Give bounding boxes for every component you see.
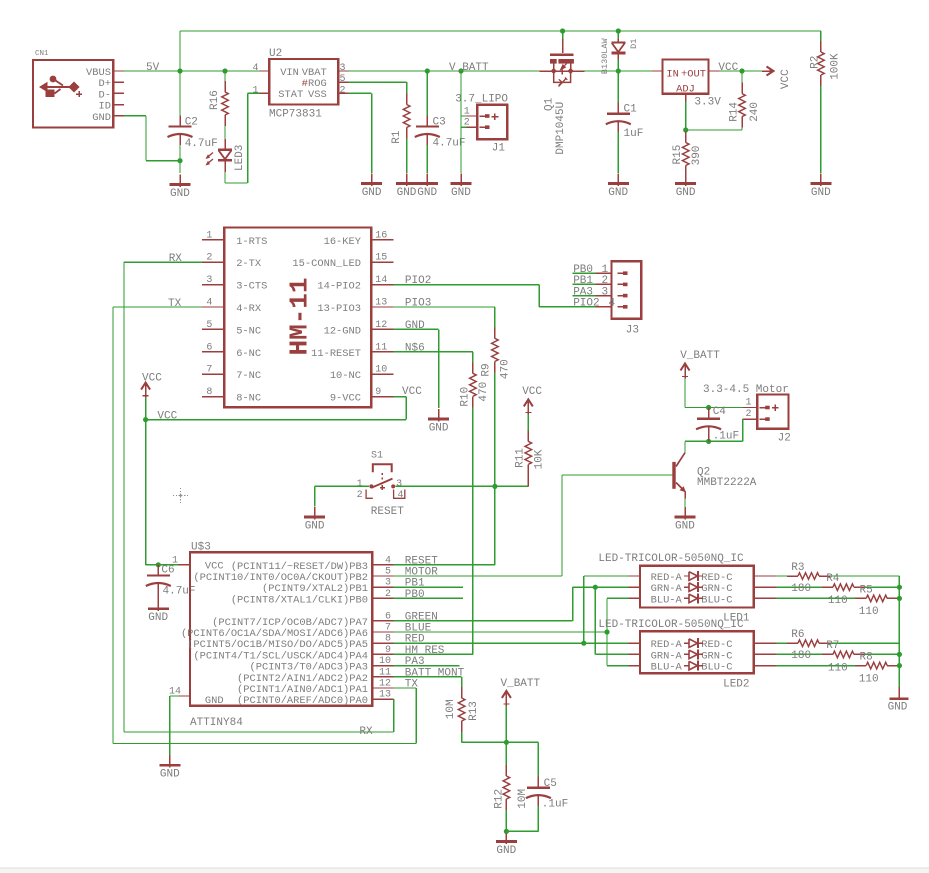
svg-text:6-NC: 6-NC: [236, 348, 261, 360]
svg-text:R10: R10: [459, 387, 471, 407]
svg-text:3: 3: [602, 286, 609, 298]
svg-text:GND: GND: [496, 845, 516, 857]
svg-text:ATTINY84: ATTINY84: [190, 717, 243, 729]
svg-text:LED-TRICOLOR-5050NQ_IC: LED-TRICOLOR-5050NQ_IC: [598, 553, 744, 565]
svg-text:R1: R1: [391, 130, 403, 144]
svg-text:390: 390: [691, 146, 703, 166]
svg-text:IN: IN: [666, 69, 678, 81]
svg-text:TX: TX: [405, 679, 419, 691]
svg-text:BLU-A: BLU-A: [651, 594, 683, 606]
svg-text:LED3: LED3: [234, 145, 246, 171]
svg-text:.1uF: .1uF: [542, 799, 568, 811]
svg-text:1-RTS: 1-RTS: [236, 236, 267, 248]
svg-text:2: 2: [385, 589, 391, 600]
svg-text:PIO2: PIO2: [573, 298, 599, 310]
svg-text:J2: J2: [778, 433, 791, 445]
svg-text:14: 14: [375, 275, 387, 286]
svg-text:ADJ: ADJ: [676, 84, 695, 96]
svg-text:VCC: VCC: [157, 411, 177, 423]
svg-text:240: 240: [749, 102, 761, 122]
svg-text:(PCINT7/ICP/OC0B/ADC7)PA7: (PCINT7/ICP/OC0B/ADC7)PA7: [212, 617, 368, 629]
svg-text:PA3: PA3: [573, 286, 593, 298]
svg-text:+OUT: +OUT: [681, 69, 706, 81]
svg-text:STAT: STAT: [278, 89, 303, 101]
svg-text:TX: TX: [168, 298, 182, 310]
svg-text:12: 12: [379, 679, 391, 690]
svg-text:GRN-A: GRN-A: [651, 650, 683, 662]
svg-text:BLU-C: BLU-C: [701, 594, 732, 606]
svg-text:470: 470: [499, 359, 511, 379]
svg-text:5-NC: 5-NC: [236, 325, 261, 337]
svg-text:110: 110: [859, 606, 879, 618]
svg-text:RED-C: RED-C: [701, 639, 732, 651]
svg-text:C4: C4: [713, 406, 727, 418]
svg-text:GND: GND: [92, 112, 111, 124]
svg-text:4.7uF: 4.7uF: [185, 138, 218, 150]
svg-text:GND: GND: [170, 188, 190, 200]
svg-text:VCC: VCC: [780, 69, 792, 89]
svg-text:R7: R7: [826, 640, 839, 652]
svg-text:2-TX: 2-TX: [236, 258, 262, 270]
svg-text:V_BATT: V_BATT: [680, 350, 720, 362]
svg-text:11: 11: [379, 667, 391, 678]
svg-text:BLU-A: BLU-A: [651, 662, 683, 674]
svg-text:(PCINT5/OC1B/MISO/DO/ADC5)PA5: (PCINT5/OC1B/MISO/DO/ADC5)PA5: [187, 639, 368, 651]
svg-text:.1uF: .1uF: [713, 430, 739, 442]
svg-text:LED-TRICOLOR-5050NQ_IC: LED-TRICOLOR-5050NQ_IC: [598, 619, 744, 631]
svg-text:GND: GND: [608, 187, 628, 199]
svg-text:BLU-C: BLU-C: [701, 662, 732, 674]
svg-text:#: #: [302, 78, 308, 90]
svg-text:J1: J1: [492, 142, 506, 154]
svg-text:1: 1: [464, 107, 470, 118]
svg-text:MCP73831: MCP73831: [269, 109, 322, 121]
svg-text:2: 2: [464, 118, 470, 129]
svg-text:8-NC: 8-NC: [236, 393, 261, 405]
svg-text:RED-A: RED-A: [651, 639, 683, 651]
svg-text:VCC: VCC: [718, 62, 738, 74]
svg-text:2: 2: [340, 85, 346, 96]
svg-text:10: 10: [379, 656, 391, 667]
svg-text:R14: R14: [729, 102, 741, 122]
svg-text:9-VCC: 9-VCC: [330, 393, 361, 405]
svg-text:C2: C2: [185, 116, 198, 128]
svg-text:V_BATT: V_BATT: [501, 678, 541, 690]
svg-text:4: 4: [385, 555, 391, 566]
svg-text:10K: 10K: [534, 449, 546, 469]
svg-text:R6: R6: [791, 629, 804, 641]
svg-text:11-RESET: 11-RESET: [311, 348, 361, 360]
svg-text:10-NC: 10-NC: [330, 370, 361, 382]
svg-text:PB1: PB1: [573, 275, 593, 287]
svg-text:R9: R9: [481, 363, 493, 376]
svg-text:DMP1045U: DMP1045U: [555, 102, 567, 155]
svg-text:100K: 100K: [830, 53, 842, 80]
svg-text:4: 4: [398, 490, 404, 501]
svg-text:180: 180: [791, 583, 811, 595]
svg-text:LED2: LED2: [723, 678, 749, 690]
svg-text:HM-11: HM-11: [285, 277, 315, 355]
svg-text:U$3: U$3: [191, 542, 211, 554]
svg-text:VBAT: VBAT: [302, 67, 327, 79]
svg-text:VBUS: VBUS: [86, 67, 111, 79]
svg-text:R15: R15: [672, 145, 684, 165]
svg-text:10: 10: [375, 365, 387, 376]
svg-text:VCC: VCC: [205, 561, 224, 573]
svg-text:470: 470: [478, 382, 490, 402]
svg-text:7-NC: 7-NC: [236, 370, 261, 382]
svg-text:15-CONN_LED: 15-CONN_LED: [292, 258, 361, 270]
svg-text:GND: GND: [429, 423, 449, 435]
svg-text:R2: R2: [809, 56, 821, 69]
svg-text:16-KEY: 16-KEY: [324, 236, 362, 248]
svg-text:11: 11: [375, 342, 387, 353]
svg-text:GRN-C: GRN-C: [701, 583, 732, 595]
svg-text:3-CTS: 3-CTS: [236, 281, 267, 293]
svg-text:2: 2: [745, 409, 751, 420]
svg-text:Q1: Q1: [544, 97, 556, 111]
svg-text:110: 110: [828, 662, 848, 674]
svg-text:GND: GND: [205, 695, 224, 707]
svg-text:ROG: ROG: [308, 78, 327, 90]
svg-text:GND: GND: [397, 187, 417, 199]
svg-text:GND: GND: [305, 521, 325, 533]
svg-text:PB0: PB0: [573, 264, 593, 276]
svg-text:N$6: N$6: [405, 342, 425, 354]
svg-text:D+: D+: [99, 78, 111, 90]
svg-text:GRN-C: GRN-C: [701, 650, 732, 662]
svg-text:3: 3: [385, 578, 391, 589]
svg-text:15: 15: [375, 253, 387, 264]
svg-text:GND: GND: [676, 187, 696, 199]
svg-text:R13: R13: [468, 701, 480, 721]
svg-text:4: 4: [206, 298, 212, 309]
svg-text:GND: GND: [451, 187, 471, 199]
svg-text:4: 4: [252, 63, 258, 74]
svg-text:R4: R4: [826, 573, 840, 585]
svg-text:R11: R11: [514, 448, 526, 468]
svg-text:8: 8: [385, 634, 391, 645]
svg-text:C1: C1: [624, 104, 638, 116]
svg-text:GND: GND: [811, 187, 831, 199]
svg-text:U2: U2: [269, 48, 282, 60]
svg-text:1: 1: [602, 264, 609, 276]
svg-text:1: 1: [172, 556, 178, 567]
svg-text:S1: S1: [371, 451, 383, 462]
svg-text:VCC: VCC: [522, 386, 542, 398]
svg-text:RESET: RESET: [371, 506, 404, 518]
svg-text:7: 7: [385, 623, 391, 634]
svg-text:16: 16: [375, 230, 387, 241]
svg-text:4-RX: 4-RX: [236, 303, 262, 315]
svg-text:3: 3: [340, 63, 346, 74]
svg-text:J3: J3: [626, 324, 639, 336]
svg-text:(PCINT0/AREF/ADC0)PA0: (PCINT0/AREF/ADC0)PA0: [237, 695, 368, 707]
svg-text:1: 1: [252, 85, 258, 96]
svg-text:12: 12: [375, 320, 387, 331]
svg-text:(PCINT9/XTAL2)PB1: (PCINT9/XTAL2)PB1: [262, 583, 368, 595]
svg-text:1uF: 1uF: [624, 128, 644, 140]
svg-text:(PCINT2/AIN1/ADC2)PA2: (PCINT2/AIN1/ADC2)PA2: [237, 673, 368, 685]
svg-text:14-PIO2: 14-PIO2: [317, 281, 361, 293]
svg-text:GND: GND: [148, 612, 168, 624]
svg-text:D1: D1: [629, 39, 639, 49]
svg-text:110: 110: [828, 595, 848, 607]
svg-text:2: 2: [206, 253, 212, 264]
svg-text:5: 5: [340, 74, 346, 85]
svg-text:D-: D-: [99, 89, 111, 101]
svg-text:GND: GND: [362, 187, 382, 199]
svg-text:V_BATT: V_BATT: [449, 62, 489, 74]
svg-text:2: 2: [357, 490, 363, 501]
svg-text:1: 1: [745, 398, 751, 409]
svg-text:(PCINT4/T1/SCL/USCK/ADC4)PA4: (PCINT4/T1/SCL/USCK/ADC4)PA4: [193, 650, 368, 662]
svg-text:6: 6: [385, 611, 391, 622]
svg-text:6: 6: [206, 342, 212, 353]
svg-text:7: 7: [206, 365, 212, 376]
svg-text:HM_RES: HM_RES: [405, 645, 445, 657]
svg-text:5: 5: [385, 567, 391, 578]
svg-text:8: 8: [206, 387, 212, 398]
svg-text:CN1: CN1: [35, 50, 49, 58]
svg-text:3: 3: [206, 275, 212, 286]
svg-text:5V: 5V: [146, 62, 160, 74]
svg-text:RESET: RESET: [405, 555, 438, 567]
svg-text:13: 13: [375, 298, 387, 309]
svg-text:2: 2: [602, 275, 609, 287]
svg-text:13-PIO3: 13-PIO3: [317, 303, 361, 315]
svg-text:4: 4: [609, 298, 616, 310]
svg-text:R5: R5: [860, 584, 873, 596]
svg-text:110: 110: [859, 673, 879, 685]
svg-text:(PCINT3/T0/ADC3)PA3: (PCINT3/T0/ADC3)PA3: [250, 662, 368, 674]
svg-text:1: 1: [357, 479, 363, 490]
svg-text:VSS: VSS: [308, 89, 327, 101]
svg-text:R3: R3: [791, 562, 804, 574]
svg-text:(PCINT11/~RESET/DW)PB3: (PCINT11/~RESET/DW)PB3: [231, 561, 368, 573]
svg-text:RX: RX: [359, 726, 373, 738]
svg-text:C3: C3: [433, 116, 446, 128]
svg-text:GND: GND: [160, 769, 180, 781]
svg-text:13: 13: [379, 690, 391, 701]
svg-text:C5: C5: [544, 778, 557, 790]
svg-text:R12: R12: [493, 789, 505, 809]
svg-text:(PCINT10/INT0/OC0A/CKOUT)PB2: (PCINT10/INT0/OC0A/CKOUT)PB2: [193, 572, 368, 584]
svg-text:GND: GND: [888, 702, 908, 714]
svg-text:9: 9: [375, 387, 381, 398]
svg-text:R16: R16: [209, 90, 221, 110]
svg-text:ID: ID: [99, 101, 111, 113]
svg-text:R8: R8: [860, 652, 873, 664]
svg-text:B130LAW: B130LAW: [600, 37, 610, 74]
svg-text:GND: GND: [417, 187, 437, 199]
svg-text:VIN: VIN: [280, 67, 299, 79]
svg-text:(PCINT6/OC1A/SDA/MOSI/ADC6)PA6: (PCINT6/OC1A/SDA/MOSI/ADC6)PA6: [181, 628, 368, 640]
svg-text:(PCINT8/XTAL1/CLKI)PB0: (PCINT8/XTAL1/CLKI)PB0: [231, 594, 368, 606]
svg-text:RED-C: RED-C: [701, 572, 732, 584]
svg-text:GND: GND: [675, 521, 695, 533]
svg-text:3.3V: 3.3V: [694, 97, 721, 109]
svg-text:RED-A: RED-A: [651, 572, 683, 584]
svg-text:MMBT2222A: MMBT2222A: [697, 477, 757, 489]
svg-text:9: 9: [385, 645, 391, 656]
svg-text:3: 3: [396, 479, 402, 490]
svg-text:RX: RX: [169, 253, 183, 265]
svg-text:10M: 10M: [445, 699, 457, 719]
svg-text:(PCINT1/AIN0/ADC1)PA1: (PCINT1/AIN0/ADC1)PA1: [237, 684, 368, 696]
svg-text:180: 180: [791, 650, 811, 662]
svg-text:1: 1: [206, 230, 212, 241]
svg-text:12-GND: 12-GND: [324, 325, 361, 337]
svg-text:5: 5: [206, 320, 212, 331]
svg-text:GRN-A: GRN-A: [651, 583, 683, 595]
